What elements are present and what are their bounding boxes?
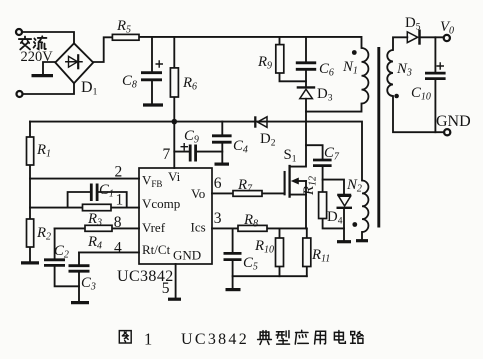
svg-text:UC3842: UC3842 (181, 331, 249, 348)
svg-text:D2: D2 (260, 131, 276, 149)
svg-text:R8: R8 (243, 212, 258, 230)
svg-text:C2: C2 (54, 243, 69, 261)
svg-text:C10: C10 (411, 85, 431, 103)
svg-text:N1: N1 (342, 59, 358, 77)
svg-text:4: 4 (114, 240, 122, 257)
svg-text:C4: C4 (233, 138, 248, 156)
svg-text:S1: S1 (284, 147, 297, 165)
svg-text:1: 1 (116, 192, 124, 209)
svg-text:C1: C1 (99, 182, 114, 200)
svg-text:UC3842: UC3842 (117, 268, 174, 285)
svg-text:V0: V0 (440, 19, 454, 37)
svg-text:R4: R4 (87, 234, 102, 252)
svg-text:C6: C6 (319, 61, 334, 79)
svg-text:Vref: Vref (142, 220, 166, 235)
svg-text:R3: R3 (87, 211, 102, 229)
svg-text:C3: C3 (81, 275, 96, 293)
svg-text:C9: C9 (184, 128, 199, 146)
svg-text:8: 8 (114, 214, 122, 231)
svg-text:R12: R12 (301, 176, 319, 196)
svg-text:6: 6 (214, 175, 222, 192)
svg-text:Vcomp: Vcomp (142, 196, 180, 211)
svg-text:R10: R10 (254, 238, 274, 256)
svg-text:Vi: Vi (168, 169, 181, 184)
svg-text:1: 1 (144, 330, 152, 349)
svg-text:N2: N2 (346, 177, 362, 195)
svg-text:C5: C5 (243, 255, 258, 273)
svg-text:VFB: VFB (142, 173, 162, 190)
svg-text:GND: GND (436, 113, 471, 130)
svg-text:R2: R2 (36, 225, 51, 243)
svg-text:R6: R6 (182, 75, 197, 93)
svg-text:Vo: Vo (191, 186, 205, 201)
svg-text:R1: R1 (36, 142, 51, 160)
svg-text:R11: R11 (311, 247, 330, 265)
svg-text:Rt/Ct: Rt/Ct (142, 242, 171, 257)
svg-text:GND: GND (173, 248, 201, 263)
svg-text:D4: D4 (327, 209, 343, 227)
svg-text:D3: D3 (317, 86, 333, 104)
svg-text:R5: R5 (116, 18, 131, 36)
svg-text:Ics: Ics (191, 220, 206, 235)
svg-text:220V: 220V (21, 49, 54, 65)
svg-text:N3: N3 (396, 61, 412, 79)
svg-text:C7: C7 (324, 145, 340, 163)
svg-text:7: 7 (163, 146, 171, 163)
svg-text:C8: C8 (122, 73, 137, 91)
svg-text:R9: R9 (257, 54, 272, 72)
svg-text:2: 2 (115, 164, 123, 181)
svg-text:R7: R7 (237, 177, 253, 195)
svg-text:D1: D1 (81, 79, 98, 98)
svg-text:3: 3 (214, 210, 222, 227)
svg-text:D5: D5 (405, 15, 421, 33)
